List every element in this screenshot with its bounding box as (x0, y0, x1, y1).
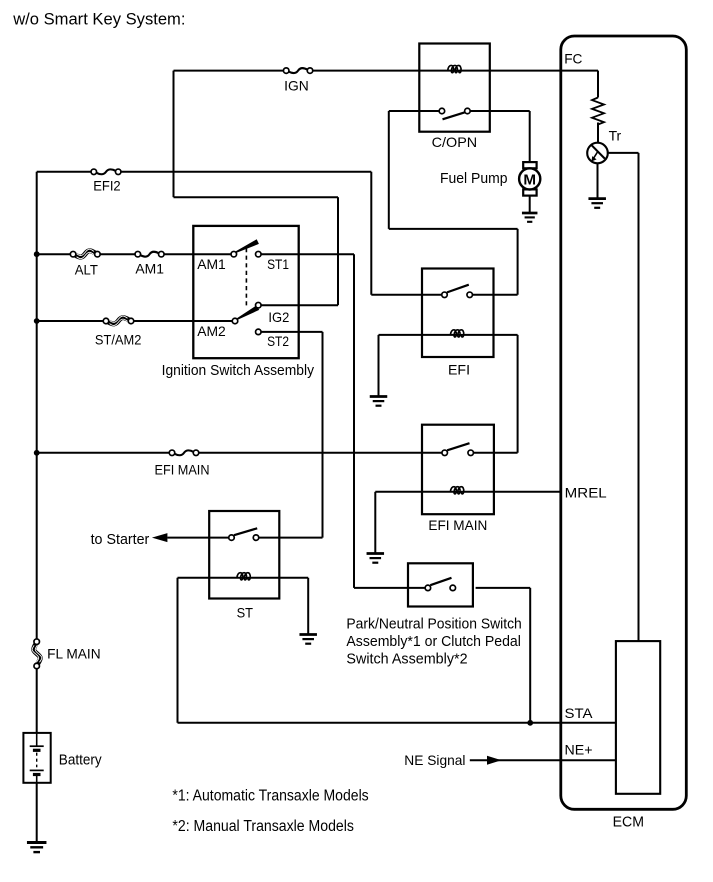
svg-text:w/o Smart Key System:: w/o Smart Key System: (12, 10, 185, 29)
svg-text:Assembly*1 or Clutch Pedal: Assembly*1 or Clutch Pedal (346, 633, 521, 650)
svg-text:*1: Automatic Transaxle Models: *1: Automatic Transaxle Models (172, 788, 369, 805)
svg-text:Ignition Switch Assembly: Ignition Switch Assembly (162, 363, 315, 379)
svg-text:ST2: ST2 (267, 333, 289, 349)
svg-text:Fuel Pump: Fuel Pump (440, 171, 508, 187)
svg-text:to Starter: to Starter (91, 532, 150, 548)
svg-text:Battery: Battery (59, 751, 102, 768)
svg-text:STA: STA (565, 705, 594, 721)
svg-text:AM1: AM1 (197, 256, 226, 272)
svg-text:MREL: MREL (565, 484, 607, 500)
svg-text:M: M (523, 171, 536, 188)
svg-text:ST/AM2: ST/AM2 (95, 331, 142, 347)
svg-text:Tr: Tr (609, 127, 622, 143)
svg-text:IGN: IGN (284, 77, 309, 93)
svg-text:ECM: ECM (613, 815, 644, 831)
svg-text:EFI MAIN: EFI MAIN (428, 517, 487, 533)
svg-text:EFI: EFI (448, 362, 470, 378)
svg-text:*2: Manual Transaxle Models: *2: Manual Transaxle Models (172, 818, 354, 835)
svg-text:EFI MAIN: EFI MAIN (155, 462, 210, 478)
svg-text:Park/Neutral Position Switch: Park/Neutral Position Switch (346, 616, 521, 633)
svg-text:NE+: NE+ (565, 742, 593, 758)
svg-text:Switch Assembly*2: Switch Assembly*2 (346, 650, 467, 667)
svg-text:NE Signal: NE Signal (404, 752, 465, 768)
svg-text:ST: ST (237, 605, 254, 621)
svg-text:IG2: IG2 (268, 309, 289, 325)
svg-text:ST1: ST1 (267, 256, 289, 272)
svg-text:AM2: AM2 (197, 323, 226, 339)
svg-text:AM1: AM1 (135, 261, 164, 277)
svg-text:C/OPN: C/OPN (432, 134, 478, 150)
svg-text:FC: FC (564, 51, 582, 67)
svg-text:EFI2: EFI2 (93, 177, 121, 193)
svg-text:FL MAIN: FL MAIN (47, 645, 101, 661)
svg-text:ALT: ALT (75, 261, 99, 277)
